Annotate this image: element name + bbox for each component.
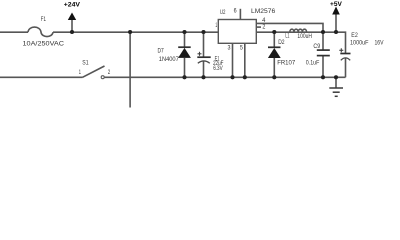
svg-text:5: 5 [240, 46, 244, 52]
node: pin5 / bottom rail [243, 75, 247, 79]
ground stub [335, 77, 337, 88]
wire: top rail from fuse to IC pin1 [53, 31, 218, 33]
svg-text:U2: U2 [220, 10, 226, 16]
svg-text:100uH: 100uH [297, 34, 312, 40]
svg-text:E2: E2 [351, 33, 358, 39]
node: E1 / bottom rail [201, 75, 205, 79]
node: D7 / bottom rail [182, 75, 186, 79]
pin 6 stub [239, 9, 241, 20]
wire: vertical branch at x=130 [129, 32, 131, 108]
wire: +24V riser [71, 20, 73, 33]
svg-text:LM2576: LM2576 [251, 9, 276, 15]
capacitor E1 plates [197, 56, 210, 58]
svg-text:D2: D2 [278, 40, 285, 46]
diode D2 cathode bar [268, 46, 281, 48]
svg-text:10A/250VAC: 10A/250VAC [23, 42, 65, 48]
node: D7 / top rail [182, 30, 186, 34]
svg-text:2: 2 [108, 70, 111, 76]
svg-text:S1: S1 [82, 61, 89, 67]
diode D2 triangle [268, 48, 281, 58]
node: C9 / bottom rail [321, 75, 325, 79]
svg-text:1000uF: 1000uF [350, 40, 369, 46]
svg-text:1: 1 [79, 70, 82, 76]
node: ground / bottom rail [334, 75, 338, 79]
capacitor E2 plus sign [339, 48, 343, 52]
diode D2 leads [273, 32, 275, 47]
svg-text:0.1uF: 0.1uF [306, 60, 320, 66]
capacitor E1 leads [203, 32, 205, 57]
wire: output net y=32 [256, 31, 307, 33]
switch S1 contact circle [101, 76, 104, 79]
capacitor C9 leads [322, 32, 324, 50]
svg-text:L1: L1 [285, 34, 289, 40]
node: C9+feedback / output net [321, 30, 325, 34]
svg-text:6: 6 [234, 9, 238, 15]
svg-text:2: 2 [262, 24, 266, 30]
diode D7 triangle [178, 48, 191, 58]
wire: output net after L1 to E2 corner [307, 32, 346, 53]
fuse F1 body [28, 27, 53, 36]
node: branch x130 / top rail [128, 30, 132, 34]
wire: top rail left segment to fuse [0, 31, 28, 33]
svg-text:1: 1 [215, 23, 217, 29]
svg-text:+24V: +24V [64, 2, 80, 8]
+24V arrowhead [68, 13, 76, 21]
svg-text:C9: C9 [313, 44, 320, 50]
+5V arrowhead [332, 7, 340, 15]
ground symbol bars [329, 88, 343, 96]
svg-text:3: 3 [228, 46, 232, 52]
diode D7 cathode bar [178, 46, 191, 48]
node: pin3 / bottom rail [230, 75, 234, 79]
diode D7 leads [184, 32, 186, 47]
svg-text:D7: D7 [158, 48, 165, 54]
svg-text:6.3V: 6.3V [213, 66, 223, 72]
inductor L1 body [290, 29, 307, 32]
IC U2 LM2576 body [218, 20, 256, 44]
svg-text:1N4007: 1N4007 [159, 57, 180, 63]
pin 4 feedback wire [256, 23, 323, 32]
node: +5V / output net [334, 30, 338, 34]
node: +24V / top rail [70, 30, 74, 34]
junction dots [70, 30, 338, 79]
switch S1 blade [83, 66, 105, 77]
capacitor E1 plus sign [198, 52, 202, 56]
svg-text:F1: F1 [41, 17, 47, 23]
pin 5 stub [244, 43, 246, 77]
svg-text:+5V: +5V [330, 2, 342, 8]
capacitor C9 plates [317, 50, 330, 56]
wire: bottom rail left to switch pin1 [0, 76, 83, 78]
capacitor E2 bottom lead [345, 58, 347, 77]
pin 3 stub [232, 43, 234, 77]
node: E1 / top rail [201, 30, 205, 34]
wire: +5V riser [335, 14, 337, 32]
node: D2 / output net [272, 30, 276, 34]
node: D2 / bottom rail [272, 75, 276, 79]
pin 2 stub [257, 26, 262, 28]
wire: bottom rail from switch to E2 corner [104, 76, 345, 78]
svg-text:16V: 16V [375, 40, 384, 46]
capacitor E2 plates [340, 53, 350, 55]
svg-text:FR107: FR107 [277, 61, 296, 67]
